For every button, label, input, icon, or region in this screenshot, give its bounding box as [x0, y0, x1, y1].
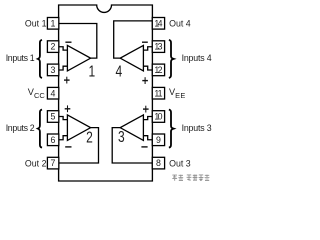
pin 2 box — [47, 41, 58, 53]
pin 14 box — [152, 18, 164, 30]
svg-text:Inputs 1: Inputs 1 — [6, 53, 35, 63]
wire pin3 to opamp1 non-inverting input — [59, 66, 68, 70]
svg-text:9: 9 — [156, 135, 161, 145]
svg-text:3: 3 — [118, 128, 125, 146]
op-amp U1A plus — [64, 77, 70, 84]
op-amp U1D plus — [142, 77, 148, 84]
svg-text:11: 11 — [154, 88, 162, 98]
svg-text:8: 8 — [156, 158, 161, 168]
op-amp U1D minus — [142, 42, 148, 43]
wire pin8 to opamp3 output — [112, 128, 152, 163]
watermark — [172, 175, 209, 181]
svg-text:VEE: VEE — [169, 87, 185, 100]
svg-text:1: 1 — [50, 18, 55, 28]
wire pin5 to opamp2 non-inverting input — [59, 117, 68, 120]
pin 9 box — [152, 134, 164, 146]
brace Inputs 1 — [38, 40, 42, 78]
wire pin1 to opamp1 output — [59, 24, 97, 59]
op-amp U1B minus — [65, 146, 71, 147]
brace Inputs 4 — [169, 40, 174, 78]
pin 6 box — [47, 134, 58, 146]
pin 5 box — [47, 111, 58, 123]
svg-text:7: 7 — [50, 158, 55, 168]
svg-text:6: 6 — [50, 135, 55, 145]
wire pin14 to opamp4 output — [114, 21, 153, 58]
pin 10 box — [152, 111, 164, 123]
op-amp U1C minus — [141, 146, 147, 147]
pin 4 box — [47, 87, 58, 99]
op-amp U1D triangle — [120, 45, 143, 71]
svg-text:Out 3: Out 3 — [169, 158, 191, 168]
svg-text:Out 2: Out 2 — [25, 158, 47, 168]
svg-text:Inputs 2: Inputs 2 — [6, 123, 35, 133]
op-amp U1C plus — [143, 106, 149, 113]
pin 12 box — [152, 64, 164, 76]
op-amp U1A label 1 — [88, 62, 95, 80]
pin 7 box — [47, 157, 58, 169]
svg-text:4: 4 — [50, 88, 55, 98]
svg-text:2: 2 — [50, 42, 55, 52]
svg-text:2: 2 — [86, 128, 93, 146]
op-amp U1C label 3 — [118, 128, 125, 146]
pin 11 box — [152, 87, 164, 99]
svg-text:12: 12 — [154, 65, 162, 75]
op-amp U1D label 4 — [116, 62, 123, 80]
svg-text:5: 5 — [50, 112, 55, 122]
brace Inputs 2 — [38, 110, 42, 148]
op-amp U1B label 2 — [86, 128, 93, 146]
pin 3 box — [47, 64, 58, 76]
op-amp U1B triangle — [67, 115, 90, 140]
svg-text:VCC: VCC — [28, 87, 46, 100]
svg-text:Inputs 4: Inputs 4 — [182, 53, 212, 63]
svg-text:Out 1: Out 1 — [25, 19, 47, 29]
brace Inputs 3 — [169, 110, 174, 148]
svg-text:Inputs 3: Inputs 3 — [182, 123, 212, 133]
pin 8 box — [152, 157, 164, 169]
svg-text:10: 10 — [154, 112, 162, 122]
wire pin12 to opamp4 non-inverting input — [143, 66, 152, 70]
pin 1 box — [47, 18, 58, 30]
wire pin10 to opamp3 non-inverting input — [143, 117, 152, 120]
wire pin7 to opamp2 output — [59, 128, 99, 163]
op-amp U1A triangle — [67, 45, 90, 71]
wire pin9 to opamp3 inverting input — [143, 136, 152, 140]
op-amp U1A minus — [65, 42, 71, 43]
wire pin6 to opamp2 inverting input — [59, 136, 68, 140]
op-amp U1B plus — [65, 105, 71, 112]
pin 13 box — [152, 41, 164, 53]
svg-text:14: 14 — [154, 18, 162, 28]
svg-text:4: 4 — [116, 62, 123, 80]
IC body U1 (DIP-14 outline with notch) — [59, 5, 153, 181]
svg-text:1: 1 — [88, 62, 95, 80]
wire pin13 to opamp4 inverting input — [143, 47, 152, 50]
wire pin2 to opamp1 inverting input — [59, 47, 68, 50]
svg-text:3: 3 — [50, 65, 55, 75]
op-amp U1C triangle — [120, 115, 143, 140]
svg-text:13: 13 — [154, 42, 162, 52]
svg-text:Out 4: Out 4 — [169, 19, 191, 29]
